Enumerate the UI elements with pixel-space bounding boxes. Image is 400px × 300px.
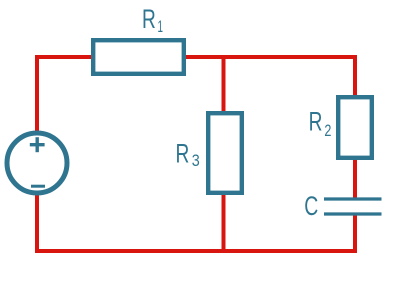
- svg-text:R: R: [176, 138, 190, 168]
- svg-text:C: C: [304, 191, 318, 221]
- svg-text:R: R: [142, 4, 156, 34]
- svg-text:2: 2: [324, 122, 331, 140]
- svg-text:R: R: [309, 106, 323, 136]
- svg-text:3: 3: [192, 152, 200, 170]
- svg-text:1: 1: [158, 17, 164, 36]
